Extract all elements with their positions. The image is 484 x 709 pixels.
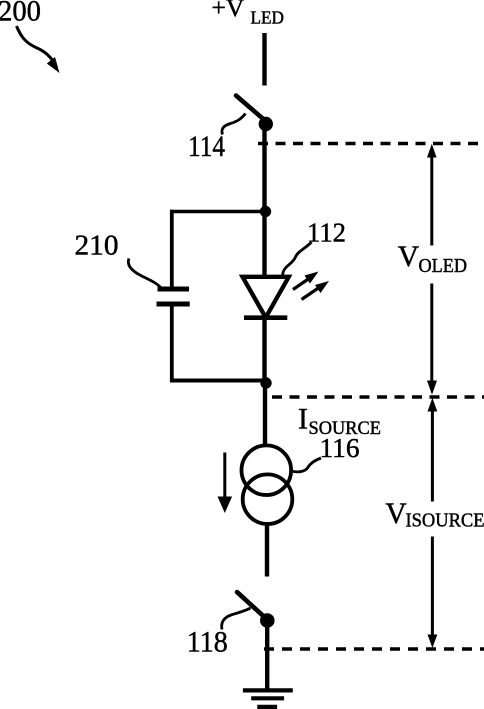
- measurement arrow VISOURCE: [428, 398, 438, 648]
- wire horizontal back to main line: [170, 379, 265, 383]
- wire horizontal to capacitor branch: [170, 210, 265, 214]
- light emission arrow 1: [293, 272, 319, 290]
- ground symbol: [243, 690, 293, 707]
- wire from +VLED down to switch 114: [262, 33, 266, 86]
- leader from label 112: [283, 242, 312, 278]
- OLED cathode bar: [244, 315, 287, 320]
- dashed level line (ground level): [264, 647, 484, 650]
- wire from bottom junction to current source: [263, 383, 267, 447]
- measurement arrow VOLED: [427, 144, 437, 395]
- wire from top junction to LED: [262, 212, 266, 280]
- svg-text:112: 112: [307, 217, 346, 247]
- svg-text:200: 200: [0, 0, 41, 28]
- wire from switch 118 to ground: [265, 621, 269, 691]
- svg-text:210: 210: [75, 230, 119, 262]
- node dot at switch 118: [260, 613, 275, 628]
- node dot at switch 114: [259, 117, 273, 131]
- svg-text:114: 114: [188, 130, 225, 163]
- leader from label 210: [128, 259, 162, 290]
- svg-text:I: I: [298, 403, 308, 436]
- leader from label 118: [222, 608, 251, 630]
- current source 116 circle 1: [241, 445, 291, 495]
- light emission arrow 2: [302, 281, 330, 300]
- wire below current source: [265, 522, 269, 577]
- svg-text:V: V: [385, 498, 406, 530]
- leader from label 114: [222, 114, 246, 135]
- leader from label 116: [291, 458, 322, 472]
- svg-text:118: 118: [187, 626, 228, 659]
- wire capacitor branch lower: [170, 307, 174, 383]
- capacitor C 210 bottom plate: [157, 302, 190, 307]
- dashed level line (cathode level): [272, 395, 484, 398]
- node (top junction): [260, 206, 271, 217]
- wire from LED to bottom junction: [262, 318, 266, 384]
- svg-text:+V: +V: [212, 0, 245, 22]
- wire from switch node to top junction: [262, 124, 266, 212]
- svg-text:116: 116: [320, 433, 360, 463]
- svg-text:OLED: OLED: [419, 255, 468, 277]
- svg-text:LED: LED: [251, 8, 285, 28]
- capacitor C 210 top plate: [158, 287, 190, 292]
- OLED diode 112 triangle: [243, 277, 289, 318]
- leader arrow from 200: [17, 26, 60, 73]
- current source 116 circle 2: [243, 474, 293, 524]
- current direction arrow: [218, 453, 233, 514]
- switch 118 blade: [237, 592, 266, 619]
- svg-text:ISOURCE: ISOURCE: [406, 510, 484, 532]
- dashed level line (anode level): [258, 142, 484, 145]
- svg-text:V: V: [398, 241, 419, 273]
- node (bottom junction): [260, 377, 271, 388]
- switch 114 blade: [236, 96, 265, 121]
- wire capacitor branch upper: [170, 210, 174, 287]
